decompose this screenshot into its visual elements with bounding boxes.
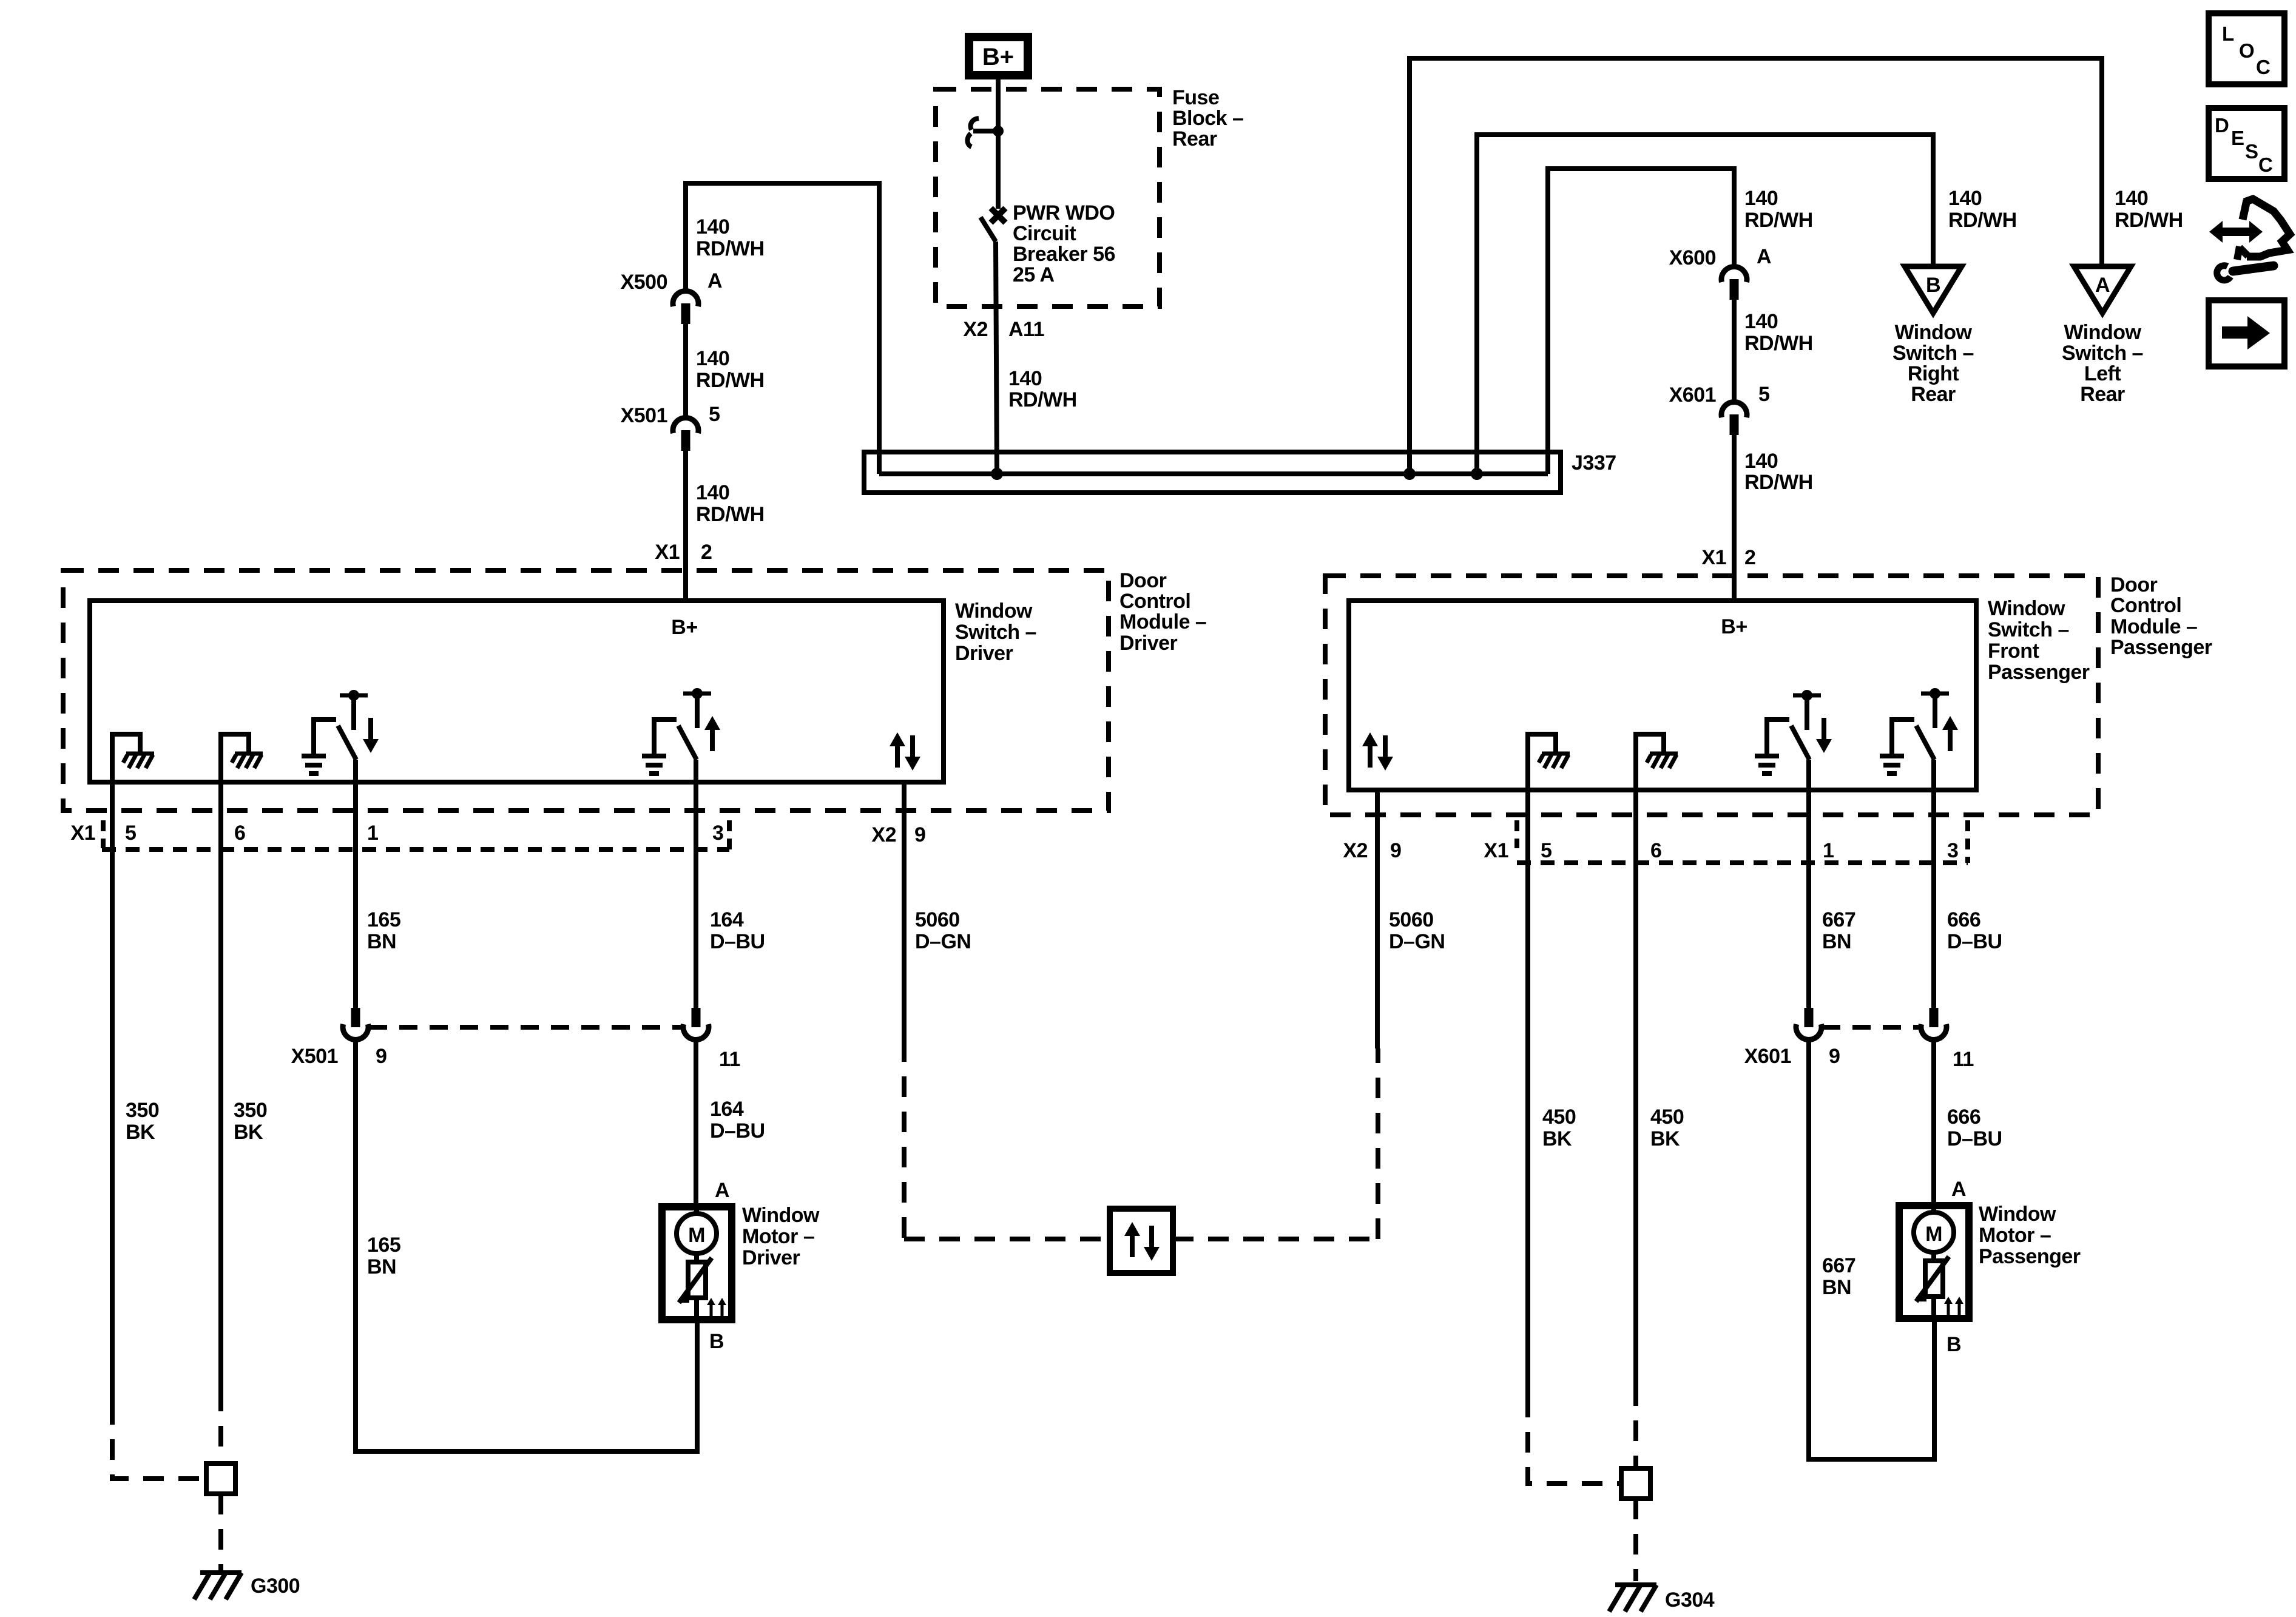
wire label 450 BK pin6 [1650,1106,1684,1150]
svg-text:Passenger: Passenger [1988,661,2090,684]
svg-text:Passenger: Passenger [2110,636,2212,659]
wire 164 D-BU lower to motor A [694,1040,698,1207]
connector X501 inline dashed link [369,1025,683,1030]
svg-text:165: 165 [367,1234,400,1257]
splice S-ground junction square passenger [1621,1468,1650,1499]
wire X500 branch loop [686,183,879,474]
wire X501 to driver module X1-2 [683,451,688,601]
svg-text:140: 140 [696,481,729,504]
svg-text:Rear: Rear [1911,383,1956,406]
svg-text:3: 3 [712,822,723,845]
svg-text:RD/WH: RD/WH [2115,209,2183,232]
svg-text:X2: X2 [963,318,988,341]
svg-text:X601: X601 [1669,383,1716,407]
label Window Switch - Left Rear [2062,321,2143,406]
svg-text:Left: Left [2084,362,2121,385]
wire label 140 RD/WH fuse output [1008,367,1077,411]
wire label 165 BN upper [367,908,400,953]
svg-text:666: 666 [1947,908,1980,931]
connector X601 pin 5 labels [1669,383,1770,407]
svg-text:Motor –: Motor – [742,1225,814,1248]
svg-text:RD/WH: RD/WH [696,369,765,392]
wire label 140 RD/WH above driver module [696,481,765,526]
svg-text:D–BU: D–BU [710,930,765,953]
label PWR WDO Circuit Breaker 56 25 A [1013,201,1115,286]
svg-text:Door: Door [1119,569,1167,592]
wire 164 D-BU pin 3 driver upper [694,782,698,1008]
svg-text:Breaker 56: Breaker 56 [1013,243,1115,266]
svg-text:5060: 5060 [915,908,960,931]
circuit breaker thermal hook [968,118,979,147]
svg-text:RD/WH: RD/WH [1744,332,1813,355]
ground pin 5 internal driver [112,734,154,782]
ground pin 6 internal driver [221,734,263,782]
icon LOC box [2209,13,2284,84]
window switch front passenger box [1349,601,1976,790]
svg-text:BK: BK [126,1121,155,1144]
svg-text:BN: BN [367,1255,396,1278]
wire label 140 RD/WH right rear [1948,187,2017,232]
svg-text:B: B [1926,274,1940,297]
splice pack J337 bus outline [864,452,1561,493]
connector X1 dashed outline driver [102,820,729,849]
svg-text:Window: Window [2064,321,2142,344]
wire 5060 D-GN driver X2-9 [904,782,1110,1239]
svg-text:Rear: Rear [2080,383,2125,406]
circuit breaker blade [981,217,996,241]
svg-text:B: B [1947,1333,1961,1356]
connector X501 pin 9 [343,1008,368,1040]
switch up contact pin 3 driver [642,688,720,782]
svg-text:X2: X2 [1343,839,1368,862]
off-page connector triangle B [1905,266,1962,313]
wire label 140 RD/WH above passenger module [1744,450,1813,494]
wire label 140 RD/WH between X500 X501 [696,347,765,392]
connector X500 pin A labels [621,269,722,294]
svg-text:J337: J337 [1572,451,1616,474]
pin labels X2 9 driver [871,823,925,846]
svg-text:667: 667 [1822,1254,1855,1277]
connector X501 pin 5 labels [621,403,720,427]
svg-text:Right: Right [1908,362,1959,385]
svg-text:X501: X501 [621,404,667,427]
wire label 350 BK pin5 [126,1099,159,1144]
wire 165 BN pin1 lower to motor B [356,1040,697,1451]
connector X601 pin 5 [1721,402,1747,435]
wire 350 BK pin 6 driver [218,782,223,1462]
svg-text:B: B [709,1330,724,1353]
wire X601 to passenger module X1-2 [1732,435,1737,601]
svg-text:Window: Window [742,1204,820,1227]
junction dot breaker feed [991,468,1003,480]
svg-text:G304: G304 [1665,1588,1715,1612]
wire label 667 BN upper [1822,908,1855,953]
svg-text:PWR WDO: PWR WDO [1013,201,1115,224]
pin labels X1 5 6 1 3 driver [70,822,723,845]
svg-text:Control: Control [2110,594,2181,617]
svg-text:666: 666 [1947,1106,1980,1129]
svg-text:140: 140 [1744,187,1778,210]
icon forward arrow box [2209,300,2284,366]
svg-text:9: 9 [1390,839,1401,862]
svg-text:X2: X2 [871,823,896,846]
battery feed B+ box [969,37,1028,75]
svg-text:RD/WH: RD/WH [1744,471,1813,494]
svg-text:2: 2 [1744,546,1755,569]
circuit breaker contact X [991,208,1005,223]
svg-text:Rear: Rear [1172,127,1217,150]
svg-text:Window: Window [1988,597,2065,620]
wire 666 D-BU pin 3 passenger upper [1931,790,1936,1008]
svg-text:O: O [2239,39,2255,62]
wire X600 to X601 [1732,300,1737,402]
wire 450 BK pin 6 passenger [1633,790,1638,1468]
label Window Switch - Driver [955,599,1036,665]
updown arrows X2-9 driver [890,732,920,771]
svg-text:140: 140 [1008,367,1042,390]
wire B+ to circuit breaker [996,79,1001,209]
svg-text:140: 140 [1948,187,1982,210]
junction dot right rear feed [1471,468,1483,480]
fuse block dashed box [936,89,1160,306]
svg-text:450: 450 [1542,1106,1576,1129]
wire bus to window switch right rear [1477,135,1933,474]
svg-text:Fuse: Fuse [1172,86,1219,109]
wire splice to G300 [218,1494,223,1570]
svg-text:RD/WH: RD/WH [1008,388,1077,411]
svg-text:Module –: Module – [2110,615,2197,638]
svg-text:Circuit: Circuit [1013,222,1076,245]
updown motor symbol box [1110,1209,1173,1273]
ground pin 5 internal passenger [1528,734,1570,790]
connector X601 inline dashed link [1822,1025,1920,1030]
svg-text:A: A [715,1179,729,1202]
svg-text:X600: X600 [1669,246,1716,269]
wire label 140 RD/WH above X500 [696,215,765,260]
wire label 5060 D-GN passenger [1389,908,1445,953]
off-page connector triangle A [2074,266,2131,313]
wire label 5060 D-GN driver [915,908,971,953]
svg-text:Front: Front [1988,640,2039,663]
svg-text:BK: BK [1650,1127,1680,1150]
svg-text:B+: B+ [1721,615,1747,638]
node junction at breaker top [973,126,1004,137]
svg-text:B+: B+ [671,616,697,639]
svg-text:9: 9 [914,823,925,846]
svg-text:Switch –: Switch – [955,621,1036,644]
svg-text:11: 11 [1953,1048,1974,1071]
label Window Switch - Right Rear [1893,321,1974,406]
ground G300 [194,1573,300,1599]
svg-text:X601: X601 [1744,1045,1791,1068]
wire label 140 RD/WH left rear [2115,187,2183,232]
svg-text:9: 9 [1829,1045,1840,1068]
svg-text:Motor –: Motor – [1979,1224,2051,1247]
svg-text:Switch –: Switch – [2062,342,2143,365]
svg-text:G300: G300 [251,1575,300,1598]
switch down contact pin 1 passenger [1755,690,1832,790]
svg-text:X1: X1 [1484,839,1508,862]
wire label 667 BN lower [1822,1254,1855,1299]
label Window Switch - Front Passenger [1988,597,2090,684]
svg-text:350: 350 [126,1099,159,1122]
wire label 165 BN lower [367,1234,400,1278]
svg-text:S: S [2245,140,2258,163]
pin X1 2 labels driver [655,541,712,564]
label Door Control Module - Passenger [2110,573,2212,659]
svg-text:5: 5 [1758,383,1769,406]
junction dot left rear feed [1403,468,1416,480]
svg-text:A: A [707,269,722,292]
wire label 140 RD/WH between X600 X601 [1744,310,1813,355]
window motor passenger [1899,1206,1969,1318]
svg-text:RD/WH: RD/WH [696,503,765,526]
label Fuse Block - Rear [1172,86,1243,150]
svg-text:6: 6 [1650,839,1661,862]
svg-text:RD/WH: RD/WH [1744,209,1813,232]
wire 165 BN pin 1 driver upper [353,782,358,1008]
wire 450 BK pin 5 passenger [1528,790,1620,1484]
bus internal wire [879,471,1548,476]
connector X501 pin 9 labels [291,1045,387,1068]
svg-text:5060: 5060 [1389,908,1434,931]
connector X600 [1721,266,1747,300]
wire 350 BK pin 5 driver [112,782,205,1479]
svg-text:Door: Door [2110,573,2158,596]
svg-text:A11: A11 [1008,318,1044,341]
svg-text:BK: BK [1542,1127,1572,1150]
svg-text:Driver: Driver [1119,632,1178,655]
svg-text:1: 1 [367,822,378,845]
svg-text:D–BU: D–BU [1947,1127,2002,1150]
svg-text:667: 667 [1822,908,1855,931]
svg-text:3: 3 [1947,839,1958,862]
pin X2 A11 labels [963,318,1044,341]
wire 667 BN lower to motor B [1809,1040,1934,1459]
ground pin 6 internal passenger [1636,734,1678,790]
svg-text:5: 5 [1541,839,1551,862]
svg-text:140: 140 [696,215,729,238]
svg-text:X501: X501 [291,1045,338,1068]
svg-text:1: 1 [1823,839,1834,862]
wire 666 D-BU lower to motor A [1931,1040,1936,1206]
svg-text:164: 164 [710,908,744,931]
svg-text:6: 6 [234,822,245,845]
svg-text:RD/WH: RD/WH [1948,209,2017,232]
switch down contact pin 1 driver [302,690,379,782]
svg-text:A: A [1757,245,1771,268]
wire breaker to J337 bus [996,241,997,474]
label Window Motor - Driver [742,1204,820,1269]
svg-text:9: 9 [376,1045,387,1068]
svg-text:Passenger: Passenger [1979,1245,2081,1268]
connector X501 pin 11 [683,1008,709,1040]
svg-text:140: 140 [1744,450,1778,473]
svg-text:X500: X500 [621,271,667,294]
window switch driver box [90,601,944,782]
wire 667 BN pin 1 passenger upper [1806,790,1811,1008]
svg-text:C: C [2256,56,2271,78]
connector X600 pin A labels [1669,245,1771,269]
svg-text:2: 2 [701,541,712,564]
connector X601 pin 11 [1921,1008,1947,1040]
wire bus to window switch left rear [1410,58,2102,474]
connector X501 pin 5 [673,417,698,451]
svg-text:E: E [2231,127,2244,149]
wire label 164 D-BU upper [710,908,765,953]
svg-text:Driver: Driver [742,1246,800,1269]
svg-text:Switch –: Switch – [1893,342,1974,365]
svg-text:X1: X1 [655,541,680,564]
svg-text:L: L [2222,22,2234,45]
svg-text:Control: Control [1119,590,1190,613]
svg-text:X1: X1 [1701,546,1726,569]
svg-text:BK: BK [234,1121,263,1144]
pin labels X2 9 passenger [1343,839,1401,862]
switch up contact pin 3 passenger [1880,688,1958,790]
svg-text:D–GN: D–GN [915,930,971,953]
splice S-ground junction square driver [206,1463,235,1494]
connector X500 [673,291,698,324]
connector X1 dashed outline passenger [1517,820,1968,863]
svg-text:RD/WH: RD/WH [696,237,765,260]
svg-text:D: D [2215,114,2229,137]
wire X500 to X501 [683,324,688,417]
svg-text:Block –: Block – [1172,107,1243,130]
svg-text:165: 165 [367,908,400,931]
updown arrows X2-9 passenger [1362,732,1393,771]
pin labels X1 5 6 1 3 passenger [1484,839,1958,862]
svg-text:5: 5 [125,822,136,845]
svg-text:BN: BN [367,930,396,953]
svg-text:140: 140 [2115,187,2148,210]
svg-text:BN: BN [1822,1276,1851,1299]
svg-text:X1: X1 [70,822,95,845]
wire bus to X600 [1548,169,1734,474]
svg-text:B+: B+ [982,44,1014,70]
door control module driver dashed box [63,570,1109,811]
svg-text:350: 350 [234,1099,267,1122]
svg-text:164: 164 [710,1098,744,1121]
svg-text:A: A [2095,274,2110,297]
svg-text:Window: Window [1895,321,1973,344]
wire label 666 D-BU upper [1947,908,2002,953]
svg-text:D–BU: D–BU [710,1119,765,1143]
svg-text:D–GN: D–GN [1389,930,1445,953]
svg-text:140: 140 [696,347,729,370]
wire label 450 BK pin5 [1542,1106,1576,1150]
svg-text:Window: Window [1979,1203,2056,1226]
wire label 666 D-BU lower [1947,1106,2002,1150]
label Window Motor - Passenger [1979,1203,2081,1268]
svg-text:25 A: 25 A [1013,263,1055,286]
connector X601 pin 9 [1796,1008,1822,1040]
svg-text:Driver: Driver [955,642,1013,665]
svg-text:5: 5 [709,403,720,426]
svg-text:C: C [2258,154,2273,176]
icon diagnostic pictogram [2209,199,2290,280]
window motor driver [662,1207,732,1320]
svg-text:Switch –: Switch – [1988,618,2069,641]
wire splice to G304 [1633,1499,1638,1581]
icon DESC box [2209,108,2284,179]
svg-text:A: A [1951,1178,1966,1201]
label Door Control Module - Driver [1119,569,1206,655]
connector X601 pin 9 labels [1744,1045,1840,1068]
wire 5060 D-GN passenger X2-9 [1173,790,1378,1239]
svg-text:Window: Window [955,599,1033,623]
svg-text:BN: BN [1822,930,1851,953]
wire label 350 BK pin6 [234,1099,267,1144]
svg-text:11: 11 [719,1048,740,1071]
wire label 164 D-BU lower [710,1098,765,1143]
svg-text:450: 450 [1650,1106,1684,1129]
svg-text:140: 140 [1744,310,1778,333]
wire label 140 RD/WH above X600 [1744,187,1813,232]
door control module passenger dashed box [1325,576,2098,815]
svg-text:D–BU: D–BU [1947,930,2002,953]
svg-text:Module –: Module – [1119,610,1206,633]
pin X1 2 labels passenger [1701,546,1755,569]
ground G304 [1609,1585,1715,1612]
